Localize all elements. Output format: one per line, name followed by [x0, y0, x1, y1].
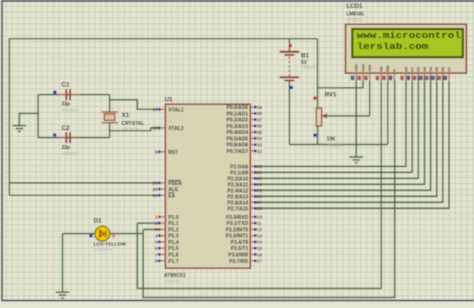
- LCD pin 3 VEE: [364, 64, 372, 81]
- wire: battery top pin: [288, 39, 290, 52]
- svg-text:7: 7: [401, 76, 403, 81]
- svg-text:RS: RS: [380, 66, 384, 72]
- svg-text:28: 28: [257, 206, 263, 211]
- wire: VEE column up to LCD: [369, 81, 371, 116]
- svg-text:RST: RST: [168, 150, 178, 156]
- battery B1: [280, 52, 300, 81]
- pin 11 P3.1/TXD (right): [227, 221, 263, 227]
- svg-text:39: 39: [257, 105, 263, 110]
- pin 38 P0.1/AD1 (right): [227, 111, 263, 117]
- svg-text:LCD1: LCD1: [346, 3, 363, 10]
- svg-text:P0.2/AD2: P0.2/AD2: [227, 118, 249, 124]
- svg-text:29: 29: [152, 181, 158, 186]
- svg-text:19: 19: [152, 107, 158, 112]
- svg-text:31: 31: [152, 193, 158, 198]
- svg-text:<TEXT>: <TEXT>: [301, 65, 318, 70]
- pin 32 P0.7/AD7 (right): [227, 149, 263, 155]
- wire: battery neg down to ground rail: [288, 80, 290, 144]
- svg-text:<TEXT>: <TEXT>: [122, 127, 139, 132]
- svg-text:www.microcontrol: www.microcontrol: [357, 30, 462, 41]
- svg-text:D1: D1: [94, 217, 103, 224]
- svg-text:22: 22: [257, 170, 263, 175]
- pin 19 XTAL1 (left): [152, 107, 184, 113]
- wire: ground rail up to LCD RW: [387, 81, 389, 145]
- pin 4 P1.3 (left): [155, 233, 179, 239]
- svg-text:P3.6/WR: P3.6/WR: [228, 253, 248, 259]
- pin 22 P2.1/A9 (right): [230, 170, 262, 176]
- svg-text:34: 34: [257, 136, 263, 141]
- pin 6 P1.5 (left): [155, 246, 179, 252]
- LED D1: [95, 226, 110, 241]
- potentiometer RV1: [316, 108, 327, 126]
- LCD pin 11 D4: [423, 66, 433, 81]
- svg-text:P1.7: P1.7: [168, 259, 179, 265]
- svg-text:C1: C1: [62, 82, 71, 89]
- pin 23 P2.2/A10 (right): [227, 176, 262, 182]
- svg-text:26: 26: [257, 194, 263, 199]
- svg-text:<TEXT>: <TEXT>: [62, 108, 79, 113]
- svg-text:P0.5/AD5: P0.5/AD5: [227, 136, 249, 142]
- wire: +5V top rail from EA column to VDD/pot column: [9, 39, 317, 196]
- svg-text:XTAL1: XTAL1: [168, 107, 184, 113]
- svg-text:P0.3/AD3: P0.3/AD3: [227, 124, 249, 130]
- svg-text:21: 21: [257, 164, 263, 169]
- svg-text:33p: 33p: [62, 145, 71, 151]
- svg-text:8: 8: [155, 259, 158, 264]
- pin 39 P0.0/AD0 (right): [227, 105, 263, 111]
- pin 28 P2.7/A15 (right): [227, 206, 262, 212]
- LCD pin 6 E: [388, 69, 396, 81]
- LCD pin 13 D6: [436, 67, 446, 81]
- crystal X1: [102, 112, 118, 123]
- svg-text:P3.4/T0: P3.4/T0: [231, 240, 249, 246]
- svg-text:VSS: VSS: [355, 64, 359, 72]
- svg-text:B1: B1: [301, 52, 310, 59]
- pin 8 P1.7 (left): [155, 259, 179, 265]
- svg-text:27: 27: [257, 200, 263, 205]
- svg-text:P3.7/RD: P3.7/RD: [229, 259, 248, 265]
- LCD pin 2 VDD: [357, 63, 365, 81]
- svg-text:5: 5: [155, 240, 158, 245]
- pin 17 P3.7/RD (right): [229, 259, 262, 265]
- svg-text:P1.2: P1.2: [168, 227, 179, 233]
- svg-text:XTAL2: XTAL2: [168, 126, 184, 132]
- svg-text:VEE: VEE: [368, 64, 372, 72]
- wire: RV1 bottom to ground rail: [317, 126, 319, 145]
- svg-text:D2: D2: [417, 67, 421, 72]
- wire: P1.2 jog: [143, 228, 160, 230]
- svg-text:<TEXT>: <TEXT>: [346, 17, 363, 22]
- pin 21 P2.0/A8 (right): [230, 164, 262, 170]
- svg-text:10K: 10K: [327, 137, 337, 143]
- wire: tap to ground 1: [19, 113, 38, 125]
- pin 25 P2.4/A12 (right): [227, 188, 262, 194]
- wire: P2.0 to LCD D0: [256, 81, 406, 166]
- svg-text:P1.5: P1.5: [168, 246, 179, 252]
- svg-text:RV1: RV1: [325, 92, 338, 99]
- wire: P1.2 to LCD E: [143, 80, 394, 298]
- svg-text:P0.4/AD4: P0.4/AD4: [227, 130, 249, 136]
- pin 30 ALE (left): [152, 187, 178, 193]
- wire: P1.1 to LCD RS: [137, 81, 381, 288]
- svg-text:P3.0/RXD: P3.0/RXD: [226, 215, 249, 221]
- wire: C1-C2 left column: [37, 95, 39, 138]
- svg-text:P0.0/AD0: P0.0/AD0: [227, 105, 249, 111]
- svg-text:P3.2/INT0: P3.2/INT0: [226, 227, 249, 233]
- svg-text:2: 2: [155, 221, 158, 226]
- LCD pin 8 D1: [406, 67, 414, 81]
- svg-text:11: 11: [257, 221, 262, 226]
- svg-text:14: 14: [257, 240, 263, 245]
- pin 12 P3.2/INT0 (right): [226, 227, 263, 233]
- pin 18 XTAL2 (left): [152, 126, 184, 132]
- pin 36 P0.3/AD3 (right): [227, 124, 263, 130]
- svg-text:P1.6: P1.6: [168, 253, 179, 259]
- LCD pin 10 D3: [417, 67, 427, 81]
- wire: +5V branch to LCD VDD: [318, 81, 364, 88]
- svg-text:9: 9: [155, 150, 158, 155]
- svg-text:C2: C2: [62, 125, 71, 132]
- svg-text:P1.4: P1.4: [168, 240, 179, 246]
- svg-text:<TEXT>: <TEXT>: [326, 143, 343, 148]
- pin 5 P1.4 (left): [155, 240, 179, 246]
- pin 27 P2.6/A14 (right): [227, 200, 262, 206]
- LCD pin 4 RS: [375, 66, 383, 81]
- wire: crystal node to XTAL1: [110, 100, 161, 110]
- pin 1 P1.0 (left): [155, 215, 179, 221]
- wire: +5V to EA pin 31: [9, 194, 160, 196]
- svg-text:P0.1/AD1: P0.1/AD1: [227, 111, 249, 117]
- svg-text:P1.0: P1.0: [168, 215, 179, 221]
- svg-text:<TEXT>: <TEXT>: [164, 279, 181, 284]
- pin 10 P3.0/RXD (right): [226, 215, 262, 221]
- ground 2 (LCD VSS): [350, 157, 364, 163]
- LCD pin 5 RW: [382, 65, 390, 81]
- svg-text:U1: U1: [165, 97, 174, 104]
- wire: P2.1 to LCD D1: [256, 81, 412, 172]
- svg-text:PSEN: PSEN: [168, 181, 182, 187]
- svg-text:P1.3: P1.3: [168, 234, 179, 240]
- pin 7 P1.6 (left): [155, 252, 179, 258]
- svg-text:EA: EA: [168, 193, 175, 199]
- svg-text:25: 25: [257, 188, 263, 193]
- wire: LED row: [63, 233, 144, 235]
- svg-text:3: 3: [155, 227, 158, 232]
- ground 1 (crystal caps): [13, 126, 27, 132]
- svg-text:P1.1: P1.1: [168, 221, 179, 227]
- capacitor C1: [57, 89, 79, 100]
- capacitor C2: [57, 132, 79, 143]
- svg-text:38: 38: [257, 111, 263, 116]
- wire: P2.7 to LCD D7: [256, 81, 449, 208]
- LCD pin 12 D5: [430, 67, 440, 81]
- svg-text:VDD: VDD: [361, 63, 365, 71]
- microcontroller U1 AT89C51 body: [165, 104, 250, 268]
- pin 34 P0.5/AD5 (right): [227, 136, 263, 142]
- pin 26 P2.5/A13 (right): [227, 194, 262, 200]
- svg-text:P0.6/AD6: P0.6/AD6: [227, 143, 249, 149]
- svg-text:37: 37: [257, 117, 263, 122]
- wire: P2.5 to LCD D5: [256, 81, 437, 196]
- wire: P1.1 jog: [137, 222, 160, 224]
- wire: crystal top pin: [109, 95, 111, 112]
- svg-text:P3.1/TXD: P3.1/TXD: [227, 221, 249, 227]
- pin 13 P3.3/INT1 (right): [226, 233, 263, 239]
- svg-text:D0: D0: [404, 67, 408, 72]
- wire: crystal node to XTAL2: [110, 128, 161, 131]
- svg-text:13: 13: [257, 233, 263, 238]
- pin 14 P3.4/T0 (right): [231, 240, 263, 246]
- svg-text:35: 35: [257, 130, 263, 135]
- wire: P2.3 to LCD D3: [256, 81, 425, 184]
- wire: crystal bottom pin: [109, 123, 111, 138]
- svg-text:1: 1: [155, 215, 158, 220]
- wire: C1 row to crystal top node: [38, 94, 110, 96]
- wire: P2.6 to LCD D6: [256, 81, 443, 202]
- svg-text:15: 15: [257, 246, 263, 251]
- pin 33 P0.6/AD6 (right): [227, 143, 263, 149]
- LCD pin 14 D7: [442, 67, 452, 81]
- svg-text:D5: D5: [435, 67, 439, 72]
- svg-text:33p: 33p: [62, 102, 71, 108]
- svg-text:24: 24: [257, 182, 263, 187]
- svg-text:10: 10: [257, 215, 263, 220]
- svg-text:ALE: ALE: [168, 187, 179, 193]
- wire: +5V to PSEN pin 29: [9, 182, 160, 184]
- LCD pin 9 D2: [412, 67, 420, 81]
- wire: P2.2 to LCD D2: [256, 81, 418, 178]
- svg-text:10: 10: [418, 76, 422, 81]
- svg-text:RW: RW: [386, 65, 390, 72]
- LCD pin 7 D0: [400, 67, 408, 81]
- svg-text:36: 36: [257, 124, 263, 129]
- wire: LCD VSS down to ground 2: [355, 81, 357, 157]
- svg-text:D3: D3: [423, 67, 427, 72]
- svg-text:D6: D6: [441, 67, 445, 72]
- svg-text:P3.5/T1: P3.5/T1: [231, 246, 249, 252]
- pin 16 P3.6/WR (right): [228, 252, 262, 258]
- svg-text:P3.3/INT1: P3.3/INT1: [226, 234, 249, 240]
- LCD LCD1 LM016L board: [346, 24, 467, 73]
- pin 31 EA (left): [152, 193, 175, 200]
- wire: +5V down to RV1 top: [317, 39, 319, 108]
- svg-text:P0.7/AD7: P0.7/AD7: [227, 149, 249, 155]
- svg-text:17: 17: [257, 259, 263, 264]
- svg-text:18: 18: [152, 126, 158, 131]
- svg-text:6: 6: [155, 246, 158, 251]
- svg-text:P2.7/A15: P2.7/A15: [227, 206, 248, 212]
- pin 3 P1.2 (left): [155, 227, 179, 233]
- pin 35 P0.4/AD4 (right): [227, 130, 263, 136]
- svg-text:<TEXT>: <TEXT>: [62, 151, 79, 156]
- LCD pin 1 VSS: [351, 64, 359, 81]
- svg-text:<TEXT>: <TEXT>: [95, 247, 112, 252]
- svg-text:23: 23: [257, 176, 263, 181]
- svg-text:16: 16: [257, 252, 263, 257]
- svg-text:D1: D1: [411, 67, 415, 72]
- wire: LED anode to ground 3: [62, 234, 64, 293]
- ground 3 (LED): [56, 292, 70, 298]
- wire: ground rail: [289, 144, 387, 146]
- svg-text:lerslab.com: lerslab.com: [357, 41, 429, 52]
- LCD screen: [352, 29, 463, 57]
- pin 2 P1.1 (left): [155, 221, 179, 227]
- pin 15 P3.5/T1 (right): [231, 246, 263, 252]
- wire: P2.4 to LCD D4: [256, 81, 431, 190]
- svg-text:30: 30: [152, 187, 158, 192]
- svg-text:12: 12: [257, 227, 263, 232]
- wire: C2 row to crystal bottom node: [38, 137, 110, 139]
- pin 29 PSEN (left): [152, 180, 182, 187]
- svg-text:7: 7: [155, 252, 158, 257]
- pin 24 P2.3/A11 (right): [228, 182, 263, 188]
- svg-text:4: 4: [155, 233, 158, 238]
- pin 37 P0.2/AD2 (right): [227, 117, 263, 123]
- svg-text:X1: X1: [122, 112, 130, 119]
- svg-text:D7: D7: [447, 67, 451, 72]
- svg-text:32: 32: [257, 149, 263, 154]
- pin 9 RST (left): [155, 150, 178, 156]
- svg-text:33: 33: [257, 143, 263, 148]
- wire: RV1 wiper to VEE column: [322, 115, 370, 117]
